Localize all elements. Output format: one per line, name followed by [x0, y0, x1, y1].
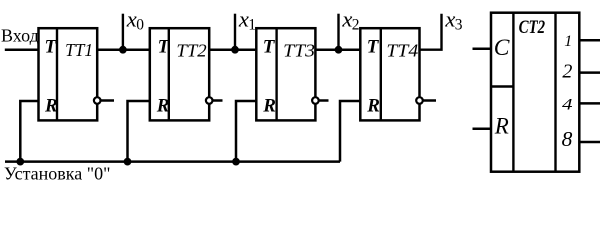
- wire TT2 R branch: [128, 101, 150, 162]
- svg-text:CT2: CT2: [519, 17, 546, 38]
- svg-text:R: R: [262, 95, 276, 116]
- svg-text:TT2: TT2: [176, 40, 206, 60]
- pin C input: [473, 47, 492, 50]
- inverter bubble TT2 output: [206, 97, 213, 104]
- pin R input: [473, 128, 492, 131]
- svg-text:8: 8: [562, 127, 573, 151]
- svg-text:x: x: [341, 7, 352, 32]
- svg-text:T: T: [45, 37, 58, 58]
- svg-text:x: x: [444, 7, 455, 32]
- wire TT3 R branch: [236, 101, 256, 162]
- svg-text:R: R: [366, 95, 380, 116]
- wire TT4 R branch: [340, 101, 360, 162]
- flip-flop TT3: [256, 28, 315, 120]
- inverter bubble TT4 output: [416, 97, 423, 104]
- counter CT2: [491, 13, 579, 172]
- inverter bubble TT3 output: [312, 97, 319, 104]
- svg-text:T: T: [158, 37, 171, 58]
- pin output 2: [579, 71, 600, 74]
- svg-text:C: C: [494, 35, 510, 61]
- wire input to TT1 T: [5, 48, 39, 51]
- wire TT3 inverted output stub: [319, 99, 329, 102]
- flip-flop TT1: [39, 28, 98, 120]
- wire TT2 inverted output stub: [213, 99, 223, 102]
- wire TT1 R branch: [20, 101, 38, 162]
- flip-flop TT4: [360, 28, 419, 120]
- svg-text:2: 2: [562, 61, 572, 83]
- wire x2 terminal: [337, 14, 339, 50]
- node TT2 R on reset bus: [124, 158, 132, 166]
- wire TT3 Q to TT4 T: [315, 48, 360, 51]
- svg-text:2: 2: [352, 16, 360, 33]
- svg-text:TT1: TT1: [65, 40, 93, 60]
- svg-text:T: T: [263, 37, 276, 58]
- wire reset bus: [5, 160, 340, 163]
- node x2 junction: [335, 46, 343, 54]
- svg-text:T: T: [367, 37, 380, 58]
- wire x0 terminal: [122, 14, 124, 50]
- svg-text:TT4: TT4: [386, 40, 418, 60]
- svg-text:3: 3: [455, 16, 463, 33]
- svg-text:1: 1: [248, 16, 256, 33]
- divider C/R sections: [491, 85, 513, 87]
- svg-text:x: x: [238, 7, 249, 32]
- svg-text:Вход: Вход: [1, 25, 39, 45]
- wire x1 terminal: [234, 14, 236, 50]
- wire TT1 Q to TT2 T: [97, 48, 150, 51]
- flip-flop TT2: [150, 28, 209, 120]
- wire TT4 Q to x3 corner: [420, 14, 442, 50]
- inverter bubble TT1 output: [94, 97, 101, 104]
- node x1 junction: [231, 46, 239, 54]
- node TT3 R on reset bus: [232, 158, 240, 166]
- svg-text:TT3: TT3: [283, 40, 315, 60]
- pin output 8: [579, 141, 600, 144]
- pin output 1: [579, 39, 600, 42]
- svg-text:0: 0: [136, 16, 144, 33]
- svg-text:Установка "0": Установка "0": [4, 163, 110, 182]
- svg-text:R: R: [44, 95, 58, 116]
- wire TT4 inverted output stub: [423, 99, 436, 102]
- wire TT2 Q to TT3 T: [209, 48, 256, 51]
- node TT1 R on reset bus: [16, 158, 24, 166]
- svg-text:1: 1: [564, 33, 572, 50]
- svg-text:R: R: [156, 95, 170, 116]
- svg-text:4: 4: [562, 97, 573, 114]
- pin output 4: [579, 102, 600, 105]
- svg-text:x: x: [126, 7, 137, 32]
- node x0 junction: [119, 46, 127, 54]
- wire TT1 inverted output stub: [101, 99, 115, 102]
- svg-text:R: R: [494, 114, 509, 139]
